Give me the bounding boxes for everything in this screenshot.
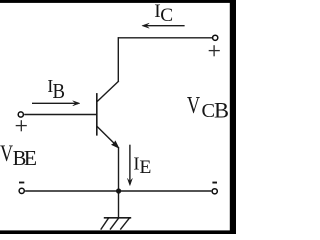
scan border bottom (0, 230, 236, 234)
terminal node: base input (open circle) (18, 112, 23, 117)
svg-text:V: V (0, 141, 14, 166)
svg-text:B: B (214, 97, 229, 122)
current arrow IC (pointing left) (142, 23, 185, 28)
ground stem (118, 191, 120, 218)
label IB (47, 76, 65, 103)
polarity + (left, under base terminal) (16, 120, 27, 131)
ground hatch 3 (120, 218, 129, 230)
label VCB (187, 93, 229, 123)
transistor Q1 collector slant (97, 81, 119, 102)
polarity + (top right) (209, 45, 220, 56)
svg-text:B: B (53, 79, 66, 103)
ground hatch 2 (110, 218, 119, 230)
current arrow IE (pointing down) (127, 145, 132, 186)
junction node at emitter/bottom wire (116, 188, 121, 193)
wire: base horizontal (24, 114, 97, 116)
wire: emitter vertical (118, 147, 120, 191)
terminal node: emitter bottom-left (open circle) (19, 188, 24, 193)
svg-text:E: E (139, 157, 151, 178)
transistor Q1 base bar (96, 93, 98, 136)
terminal node: collector top-right (open circle) (213, 35, 218, 40)
label VBE (0, 141, 37, 170)
ground bar (104, 217, 131, 219)
polarity - (right, above bottom-right terminal) (212, 182, 217, 184)
svg-text:E: E (24, 146, 37, 170)
ground hatch 1 (101, 218, 109, 230)
current arrow IB (pointing right) (32, 101, 80, 106)
label IC (154, 1, 173, 26)
polarity - (left, above bottom-left terminal) (19, 182, 24, 184)
scan border right (230, 0, 236, 234)
wire: collector top horizontal (118, 37, 212, 39)
wire: bottom horizontal (25, 190, 211, 192)
transistor Q1 emitter slant (97, 126, 115, 144)
svg-text:C: C (202, 100, 216, 122)
wire: collector vertical (117, 37, 119, 81)
svg-text:C: C (160, 5, 173, 26)
svg-text:V: V (187, 93, 201, 119)
label IE (133, 154, 151, 179)
transistor Q1 emitter arrowhead (112, 141, 119, 148)
terminal node: bottom-right (open circle) (212, 189, 217, 194)
scan border top (0, 0, 236, 3)
